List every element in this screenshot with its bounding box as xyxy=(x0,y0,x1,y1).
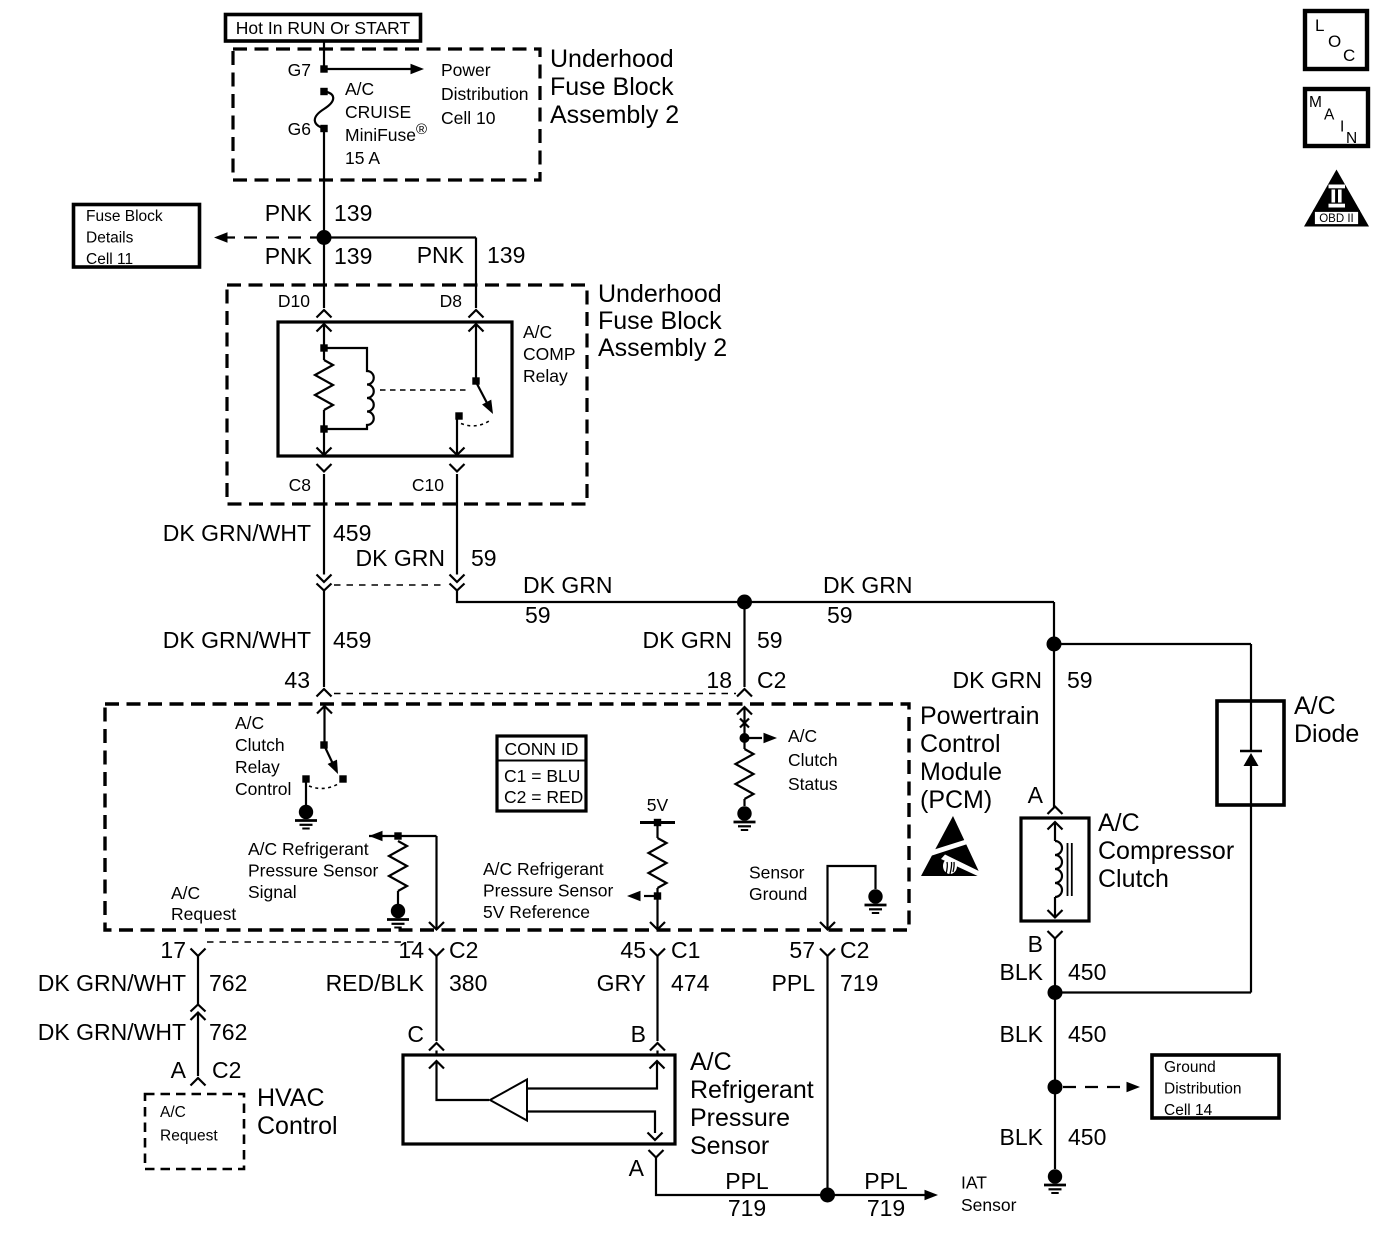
svg-text:O: O xyxy=(1328,32,1341,51)
svg-text:139: 139 xyxy=(334,243,372,269)
sensor internal: amplifier triangle xyxy=(490,1080,527,1121)
ground G103 xyxy=(1044,1169,1066,1193)
svg-text:SensorGround: SensorGround xyxy=(749,863,807,905)
sensor ground return inside PCM xyxy=(828,866,876,930)
MAIN icon xyxy=(1305,89,1368,147)
connector pin 18 at PCM xyxy=(737,689,752,697)
svg-text:59: 59 xyxy=(827,602,853,628)
ground (signal pull) xyxy=(387,904,409,928)
power feed box "Hot In RUN Or START" xyxy=(226,15,421,42)
sensor internal: input C with up arrow xyxy=(429,1061,444,1069)
svg-text:18: 18 xyxy=(706,667,732,693)
svg-text:C2: C2 xyxy=(757,667,786,693)
inline connector on DK GRN/WHT 459 xyxy=(317,575,332,583)
svg-text:380: 380 xyxy=(449,970,487,996)
connector pin 43 at PCM xyxy=(317,689,332,697)
svg-text:C: C xyxy=(407,1021,424,1047)
relay U1: A/C COMP Relay box xyxy=(278,322,512,456)
clutch coil xyxy=(1048,822,1063,830)
wire down to HVAC control xyxy=(197,1013,199,1077)
status pull resistor xyxy=(736,749,754,799)
CONN ID legend box xyxy=(497,736,586,811)
relay suppression resistor xyxy=(315,360,333,410)
node: diode return junction xyxy=(1048,985,1063,1000)
svg-text:PNK: PNK xyxy=(265,200,313,226)
svg-text:DK GRN: DK GRN xyxy=(356,545,445,571)
svg-text:DK GRN: DK GRN xyxy=(953,667,1042,693)
wire: splice down to PCM pin 18 xyxy=(743,602,745,687)
node: DK GRN splice xyxy=(737,595,752,610)
svg-text:D8: D8 xyxy=(440,291,462,311)
svg-text:A: A xyxy=(171,1057,187,1083)
svg-text:G6: G6 xyxy=(288,119,311,139)
svg-text:59: 59 xyxy=(1067,667,1093,693)
svg-text:17: 17 xyxy=(160,937,186,963)
svg-text:Hot In RUN Or START: Hot In RUN Or START xyxy=(236,18,411,38)
svg-text:PPL: PPL xyxy=(725,1168,769,1194)
svg-text:BLK: BLK xyxy=(1000,1124,1044,1150)
driver switch wire from pin 43 xyxy=(317,706,332,714)
svg-text:C2: C2 xyxy=(449,937,478,963)
wire: fuse output down to PNK junction xyxy=(323,128,325,238)
svg-text:C: C xyxy=(1343,46,1355,65)
dashed connector pairing line 17-14 xyxy=(207,941,416,943)
svg-text:450: 450 xyxy=(1068,1124,1106,1150)
svg-text:C2: C2 xyxy=(212,1057,241,1083)
pressure sensor signal input circuit xyxy=(369,831,383,841)
wire: DK GRN 59 to splice S2 xyxy=(457,591,1054,603)
relay switch blade (shown open) xyxy=(476,382,487,403)
wire: pin 17 down to inline connector xyxy=(197,956,199,1004)
wire: clutch B down to ground xyxy=(1054,939,1056,1170)
5V reference resistor xyxy=(649,838,667,888)
wire: pin 45 down to sensor pin B xyxy=(656,956,658,1041)
dashed connector pairing line 43-18 xyxy=(334,693,736,695)
svg-text:DK GRN/WHT: DK GRN/WHT xyxy=(38,970,186,996)
svg-text:B: B xyxy=(631,1021,646,1047)
wire: sensor ground lead to IAT sensor xyxy=(656,1158,931,1196)
svg-text:DK GRN/WHT: DK GRN/WHT xyxy=(38,1019,186,1045)
svg-text:C8: C8 xyxy=(289,475,311,495)
node: PPL splice at pin 57 xyxy=(820,1188,835,1203)
svg-text:C2: C2 xyxy=(840,937,869,963)
svg-text:PPL: PPL xyxy=(864,1168,908,1194)
svg-text:14: 14 xyxy=(398,937,424,963)
wire: hot feed down to fuse pin G7 xyxy=(323,41,325,69)
svg-text:C10: C10 xyxy=(412,475,444,495)
wire: pin 14 down to sensor pin C xyxy=(435,956,437,1041)
HVAC A/C Request dashed box xyxy=(145,1094,244,1169)
sensor pin A xyxy=(649,1150,664,1158)
dashed actuation link coil to switch xyxy=(380,389,467,391)
svg-text:719: 719 xyxy=(728,1195,766,1221)
A/C Diode box xyxy=(1217,701,1284,805)
underhood fuse block assembly 2 (upper) dashed outline xyxy=(233,49,540,180)
svg-text:DK GRN: DK GRN xyxy=(523,572,612,598)
arrow to 5V reference label xyxy=(644,895,658,897)
ground (sensor ground) xyxy=(865,889,887,913)
svg-text:PPL: PPL xyxy=(772,970,816,996)
svg-text:PNK: PNK xyxy=(265,243,313,269)
svg-text:N: N xyxy=(1346,130,1357,147)
sensor internal: 5V in / signal out lines xyxy=(527,1061,657,1089)
svg-text:719: 719 xyxy=(867,1195,905,1221)
svg-text:BLK: BLK xyxy=(1000,1021,1044,1047)
diode wire in xyxy=(1250,644,1252,751)
wire down to pin 14 xyxy=(435,836,437,930)
svg-text:DK GRN/WHT: DK GRN/WHT xyxy=(163,520,311,546)
svg-text:UnderhoodFuse BlockAssembly 2: UnderhoodFuse BlockAssembly 2 xyxy=(598,280,727,362)
relay switch stationary contact xyxy=(455,412,462,419)
relay coil output arrow down xyxy=(317,448,332,456)
wire: DK GRN/WHT 459 down to PCM pin 43 xyxy=(323,591,325,688)
svg-text:GRY: GRY xyxy=(597,970,646,996)
svg-text:450: 450 xyxy=(1068,959,1106,985)
A/C Compressor Clutch box xyxy=(1021,818,1089,921)
driver switch blade xyxy=(325,746,334,764)
svg-text:719: 719 xyxy=(840,970,878,996)
svg-text:D10: D10 xyxy=(278,291,310,311)
node on status line xyxy=(740,733,750,743)
fuse F: A/C CRUISE MiniFuse 15 A xyxy=(320,88,327,95)
svg-text:DK GRN: DK GRN xyxy=(823,572,912,598)
svg-text:RED/BLK: RED/BLK xyxy=(326,970,425,996)
svg-text:CONN ID: CONN ID xyxy=(505,739,579,759)
svg-text:59: 59 xyxy=(757,627,783,653)
wire: C8 down to inline connector xyxy=(323,474,325,575)
node: ground distribution junction xyxy=(1048,1080,1063,1095)
svg-text:139: 139 xyxy=(334,200,372,226)
node: PNK 139 splice junction xyxy=(317,230,332,245)
svg-text:A: A xyxy=(1028,782,1044,808)
PCM A/C clutch status input xyxy=(737,707,752,715)
wire: pin 57 down to IAT splice xyxy=(826,956,828,1195)
svg-text:G7: G7 xyxy=(288,60,311,80)
relay switch output to C10 xyxy=(456,419,458,455)
down arrow at pin 45 xyxy=(650,922,665,930)
reference box: Fuse Block Details Cell 11 xyxy=(74,205,200,268)
svg-text:474: 474 xyxy=(671,970,710,996)
svg-text:139: 139 xyxy=(487,242,525,268)
wire: junction down to relay pin D10 xyxy=(323,238,325,309)
dashed reference wire to Fuse Block Details xyxy=(222,236,317,238)
svg-text:UnderhoodFuse BlockAssembly 2: UnderhoodFuse BlockAssembly 2 xyxy=(550,45,679,129)
relay coil input wire with up arrow xyxy=(317,324,332,332)
svg-text:762: 762 xyxy=(209,1019,247,1045)
svg-text:762: 762 xyxy=(209,970,247,996)
svg-text:DK GRN: DK GRN xyxy=(643,627,732,653)
PCM dashed outline xyxy=(105,704,909,930)
ground (clutch relay driver) xyxy=(295,805,317,829)
svg-text:OBD II: OBD II xyxy=(1319,213,1354,225)
svg-text:B: B xyxy=(1028,931,1043,957)
wire: C10 down to inline connector xyxy=(456,474,458,575)
svg-text:I: I xyxy=(1340,119,1344,136)
inline connector on DK GRN/WHT 762 xyxy=(191,1005,206,1012)
reference box: Ground Distribution Cell 14 xyxy=(1152,1055,1279,1118)
diode D1 symbol xyxy=(1240,750,1262,753)
dashed reference wire to Ground Distribution xyxy=(1063,1086,1125,1088)
svg-text:A: A xyxy=(1324,107,1335,124)
svg-text:C2 = RED: C2 = RED xyxy=(504,787,583,807)
relay switch common from D8 xyxy=(469,324,484,332)
svg-text:M: M xyxy=(1309,94,1322,111)
inline connector on DK GRN 59 xyxy=(450,575,465,583)
wire: junction right branch to relay pin D8 xyxy=(324,236,476,238)
svg-text:45: 45 xyxy=(620,937,646,963)
signal pull resistor xyxy=(389,841,407,891)
svg-text:43: 43 xyxy=(284,667,310,693)
svg-text:C1: C1 xyxy=(671,937,700,963)
svg-text:BLK: BLK xyxy=(1000,959,1044,985)
dashed connector pairing line xyxy=(334,584,446,586)
underhood fuse block assembly 2 (relay) dashed outline xyxy=(227,285,587,504)
driver switch contact to ground xyxy=(302,775,309,782)
ground (clutch status) xyxy=(734,806,756,830)
node: diode branch junction xyxy=(1047,637,1062,652)
OBD II icon xyxy=(1304,170,1369,227)
wire: G7 to power distribution arrow xyxy=(324,68,411,70)
sensor U2: A/C Refrigerant Pressure Sensor box xyxy=(403,1055,675,1144)
svg-text:59: 59 xyxy=(471,545,497,571)
svg-text:C1 = BLU: C1 = BLU xyxy=(504,766,580,786)
svg-text:459: 459 xyxy=(333,627,371,653)
relay coil winding xyxy=(324,348,374,429)
clutch core lines xyxy=(1067,843,1069,896)
svg-text:5V: 5V xyxy=(647,795,669,815)
svg-text:59: 59 xyxy=(525,602,551,628)
svg-text:A: A xyxy=(629,1155,645,1181)
wire: DK GRN 59 over to clutch / diode xyxy=(1053,602,1055,807)
fuse-x mark on status line xyxy=(740,719,749,728)
svg-text:PNK: PNK xyxy=(417,242,465,268)
svg-text:57: 57 xyxy=(789,937,815,963)
ESD sensitive device symbol xyxy=(921,816,985,879)
svg-text:450: 450 xyxy=(1068,1021,1106,1047)
svg-text:DK GRN/WHT: DK GRN/WHT xyxy=(163,627,311,653)
svg-text:L: L xyxy=(1315,16,1324,35)
svg-text:459: 459 xyxy=(333,520,371,546)
LOC icon xyxy=(1305,11,1367,69)
